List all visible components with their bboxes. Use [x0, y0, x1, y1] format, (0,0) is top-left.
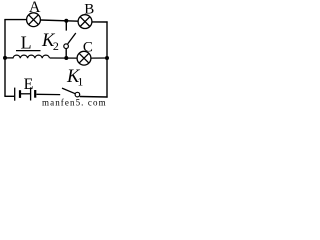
svg-text:manfen5. com: manfen5. com: [42, 98, 107, 107]
svg-text:L: L: [21, 33, 32, 53]
switch K2 bottom stub wire: [65, 49, 67, 59]
svg-text:1: 1: [77, 74, 83, 88]
node junction dot right rail: [105, 56, 109, 60]
wire middle segment coil to junction: [50, 57, 77, 59]
svg-text:A: A: [29, 0, 41, 16]
switch K2 blade: [68, 33, 76, 44]
switch K2 top stub wire: [65, 21, 67, 31]
wire battery inter-cell stub: [21, 93, 30, 95]
battery E cell1 long plate: [14, 88, 16, 101]
switch K1 pivot circle: [75, 92, 80, 97]
svg-text:2: 2: [53, 39, 59, 53]
wire top middle segment: [40, 20, 78, 21]
node junction dot top: [64, 19, 68, 23]
svg-text:E: E: [24, 76, 34, 93]
wire middle left stub: [5, 57, 14, 59]
wire battery to switch K1: [36, 93, 60, 95]
lamp C: [77, 51, 91, 65]
wire left rail: [4, 19, 6, 96]
battery E cell2 short plate: [34, 90, 36, 98]
inductor L core line: [16, 50, 41, 52]
lamp A: [27, 13, 41, 27]
wire middle right segment: [91, 57, 107, 59]
node junction dot left rail: [3, 56, 7, 60]
inductor L coil: [13, 55, 49, 58]
wire bottom left segment: [4, 95, 14, 97]
svg-text:B: B: [84, 2, 94, 18]
wire top left segment: [4, 19, 26, 21]
battery E cell2 long plate: [30, 87, 32, 100]
wire top right segment: [92, 21, 108, 23]
wire bottom right segment: [80, 96, 108, 99]
lamp B: [78, 15, 92, 29]
switch K1 blade: [62, 88, 75, 94]
switch K2 pivot circle: [64, 44, 69, 49]
node junction dot middle: [64, 56, 68, 60]
battery E cell1 short plate: [19, 90, 21, 98]
wire right rail: [106, 21, 108, 97]
svg-text:C: C: [83, 39, 93, 55]
